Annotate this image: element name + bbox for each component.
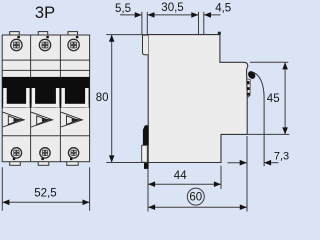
svg-text:4,5: 4,5 — [215, 2, 231, 14]
svg-text:30,5: 30,5 — [161, 2, 183, 14]
svg-text:52,5: 52,5 — [34, 187, 56, 199]
svg-text:60: 60 — [189, 192, 202, 204]
svg-text:80: 80 — [96, 92, 109, 104]
svg-text:5,5: 5,5 — [115, 3, 131, 15]
svg-text:44: 44 — [174, 170, 187, 182]
svg-text:7,3: 7,3 — [274, 150, 289, 162]
svg-text:3P: 3P — [35, 4, 55, 22]
svg-text:45: 45 — [267, 93, 280, 105]
